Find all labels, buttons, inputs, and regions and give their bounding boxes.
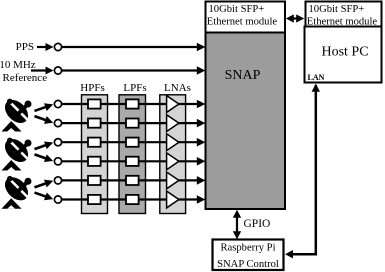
node input connector 1 xyxy=(54,100,61,107)
svg-text:SNAP: SNAP xyxy=(225,68,261,83)
LPF filter 5 xyxy=(126,176,139,185)
node input connector 4 xyxy=(54,158,61,165)
svg-text:GPIO: GPIO xyxy=(244,218,271,230)
wire feed arrow 1a xyxy=(35,100,55,110)
svg-text:LNAs: LNAs xyxy=(164,82,191,94)
wire feed arrow 1b xyxy=(35,116,55,126)
LNA amplifier 1 xyxy=(167,96,179,113)
LNA amplifier 3 xyxy=(167,134,179,151)
wire channel 2 xyxy=(62,119,205,128)
10Gbit SFP+ Ethernet module (SNAP side) xyxy=(206,2,286,33)
LNA amplifier 5 xyxy=(167,172,179,189)
wire 10GbE link (double arrow) xyxy=(286,14,304,22)
LPF filter 3 xyxy=(126,138,139,147)
wire 10MHz input arrow xyxy=(31,67,54,75)
wire feed arrow 2b xyxy=(35,154,55,164)
LNA amplifier 2 xyxy=(167,115,179,132)
wire channel 3 xyxy=(62,138,205,147)
node input connector 3 xyxy=(54,139,61,146)
svg-text:LPFs: LPFs xyxy=(123,82,146,94)
LNA amplifier 6 xyxy=(167,191,179,208)
node 10MHz connector xyxy=(54,67,61,74)
svg-text:Raspberry Pi: Raspberry Pi xyxy=(220,242,275,253)
wire channel 5 xyxy=(62,176,205,185)
svg-text:PPS: PPS xyxy=(16,41,34,53)
node PPS connector xyxy=(54,43,61,50)
HPF filter 6 xyxy=(88,195,101,204)
svg-text:10 MHz: 10 MHz xyxy=(0,59,36,71)
HPF filter 4 xyxy=(88,157,101,166)
wire feed arrow 2a xyxy=(35,139,55,149)
HPF filter 5 xyxy=(88,176,101,185)
antenna dish 2 xyxy=(0,134,32,170)
LPF filter bank column xyxy=(119,82,147,214)
HPF filter 3 xyxy=(88,138,101,147)
wire channel 4 xyxy=(62,157,205,166)
wire LAN link (Host PC to Raspberry Pi) xyxy=(285,84,320,259)
node input connector 5 xyxy=(54,177,61,184)
svg-text:Host PC: Host PC xyxy=(321,45,368,60)
SNAP FPGA block U1 xyxy=(206,33,286,210)
svg-text:SNAP Control: SNAP Control xyxy=(217,259,279,270)
wire channel 1 xyxy=(62,100,205,109)
HPF filter 1 xyxy=(88,99,101,108)
node GPIO label xyxy=(244,218,271,230)
svg-text:Reference: Reference xyxy=(3,72,48,84)
LNA amplifier 4 xyxy=(167,153,179,170)
svg-text:HPFs: HPFs xyxy=(80,82,104,94)
wire 10MHz to SNAP xyxy=(62,66,205,75)
wire GPIO (double arrow) xyxy=(233,210,241,240)
node PPS label xyxy=(16,41,34,53)
LPF filter 4 xyxy=(126,157,139,166)
antenna dish 1 xyxy=(0,95,32,131)
svg-text:LAN: LAN xyxy=(308,73,325,82)
svg-text:Ethernet module: Ethernet module xyxy=(207,16,278,27)
svg-text:10Gbit SFP+: 10Gbit SFP+ xyxy=(209,4,265,15)
Raspberry Pi SNAP Control block xyxy=(213,240,284,271)
HPF filter 2 xyxy=(88,119,101,128)
LPF filter 2 xyxy=(126,119,139,128)
10Gbit SFP+ Ethernet module (Host side) xyxy=(306,2,382,28)
wire PPS input arrow xyxy=(37,43,54,51)
wire feed arrow 3b xyxy=(35,193,55,203)
svg-text:10Gbit SFP+: 10Gbit SFP+ xyxy=(309,4,365,15)
wire feed arrow 3a xyxy=(35,177,55,187)
wire channel 6 xyxy=(62,195,205,204)
HPF filter bank column xyxy=(80,82,107,214)
LPF filter 1 xyxy=(126,99,139,108)
node 10 MHz Reference label xyxy=(0,59,47,84)
Host PC block xyxy=(305,27,382,83)
antenna dish 3 xyxy=(0,173,32,209)
node input connector 6 xyxy=(54,196,61,203)
LNA amplifier bank column xyxy=(160,82,191,214)
node input connector 2 xyxy=(54,120,61,127)
wire PPS to SNAP xyxy=(62,43,205,52)
LPF filter 6 xyxy=(126,195,139,204)
